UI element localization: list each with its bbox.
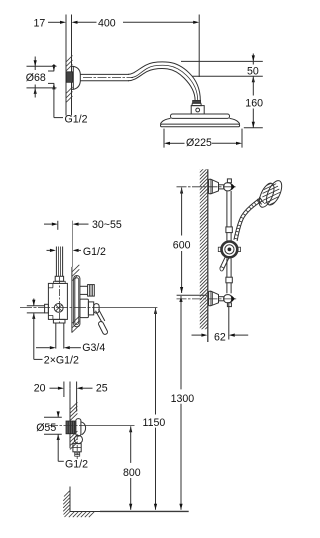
hand shower hose to holder [234,198,262,241]
outlet elbow escutcheon [76,419,81,437]
dimension Ø68 (flange diameter) [26,57,57,98]
svg-text:50: 50 [247,65,259,77]
wall hatching (top section) [66,56,73,103]
svg-text:G1/2: G1/2 [65,114,88,126]
svg-text:2×G1/2: 2×G1/2 [44,354,79,366]
dimension G1/2 (valve riser thread) [47,246,106,258]
elbow vertical centerline [76,434,78,459]
wall (valve section) [71,267,73,333]
dimension 160 (head height) [244,76,263,128]
shower arm S-curve (swan neck) [128,62,200,100]
wall corner (bottom left) [69,487,71,512]
escutcheon nut in wall (knurled) [66,72,73,83]
wall (slide bar section) [207,169,209,342]
dimension 1300 (top outlet height) [171,296,195,510]
valve riser pipe [56,247,62,277]
valve centerline [20,306,100,308]
svg-text:1300: 1300 [171,393,195,405]
dimension 30~55 (in-wall depth adjustment) [44,219,122,267]
label G1/2 (hose outlet) [58,458,88,470]
svg-text:20: 20 [34,383,46,395]
valve lever handle [96,309,109,335]
dimension 25 (elbow) [70,382,108,412]
slide bar [226,191,232,293]
valve upper outlet (threaded) [80,285,94,297]
shower arm horizontal pipe [80,74,133,80]
hose end ribs [75,452,80,457]
dimension Ø55 (escutcheon) [36,411,62,461]
dimension G1/2 (top, arm thread) [48,64,88,126]
slide bar bottom bracket [209,291,235,306]
valve wall escutcheon (edge view) [74,276,80,327]
dimension Ø225 (head diameter) [164,129,242,149]
svg-text:G3/4: G3/4 [82,342,105,354]
hose banding ticks [234,198,262,239]
dimension 2xG1/2 (inlets) [32,299,79,367]
svg-text:800: 800 [123,467,141,479]
dimension 800 (outlet height) [123,426,141,510]
svg-text:62: 62 [214,331,226,343]
slide bar top bracket [209,179,235,194]
shower arm wall flange [72,66,81,89]
dimension 17 (wall thickness) [34,18,67,30]
valve bottom outlet (G3/4) [56,323,64,349]
slide bar top bracket centerline [177,186,236,188]
valve screw (front) [54,304,63,313]
dimension 20 (elbow) [34,382,64,398]
svg-text:G1/2: G1/2 [65,458,88,470]
dimension 1150 (valve height above floor) [143,308,166,510]
svg-text:Ø225: Ø225 [186,137,212,149]
wall hatching (valve section) [72,265,79,333]
valve body [48,277,67,323]
outlet elbow bend [81,422,86,435]
wall hatching (outlet elbow section) [70,402,77,449]
svg-text:600: 600 [173,240,191,252]
wall (outlet elbow section) [69,388,71,448]
valve left inlet stub [27,304,49,313]
floor line [70,510,189,512]
corner hatching [63,491,94,518]
svg-text:17: 17 [34,18,46,30]
dimension 400 (arm projection) [72,15,200,78]
svg-text:Ø68: Ø68 [26,72,46,84]
svg-text:400: 400 [98,18,116,30]
hose nut [73,444,81,452]
outlet ball joint [74,435,82,443]
outlet elbow in-wall body (knurled) [66,421,76,434]
elbow horizontal centerline [48,425,81,427]
dimension 62 (bar offset from wall) [192,304,249,344]
valve cartridge and handle hub [80,299,99,318]
hand shower head [256,178,285,209]
svg-text:160: 160 [245,98,263,110]
slide bar bottom bracket centerline [177,298,237,300]
valve top coupling [54,276,66,283]
slider holder hub [218,241,240,259]
svg-text:G1/2: G1/2 [83,246,106,258]
svg-text:30~55: 30~55 [92,219,122,231]
hand shower handle in holder [220,256,229,271]
dimension 600 (bracket spacing) [173,188,191,294]
dimension G3/4 (bottom outlet) [36,342,105,354]
svg-text:1150: 1150 [143,417,166,429]
wall (top section, shower arm mounting wall) [66,15,72,116]
dimension 50 (arm drop) [181,54,263,78]
valve bottom coupling [53,319,65,323]
slide bar bottom bracket extension line [177,294,207,296]
svg-text:25: 25 [96,383,108,395]
overhead shower head [161,114,240,127]
shower head connector nut [191,100,204,114]
svg-text:Ø55: Ø55 [36,422,56,434]
